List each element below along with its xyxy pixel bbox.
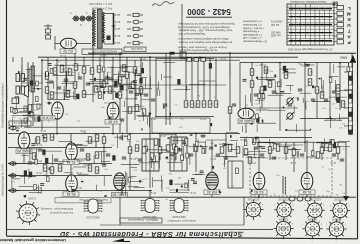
mains transformer windings (283, 176, 286, 195)
resistor R7 (90, 68, 94, 74)
capacitor C18 (80, 149, 84, 151)
potentiometer VR2 (286, 112, 294, 120)
capacitor C4 (78, 77, 82, 79)
label EF 89 (105, 119, 121, 124)
DIN connector arrow P1 (9, 126, 20, 130)
svg-text:EM34: EM34 (24, 211, 31, 215)
small dark box left of paragraph (180, 52, 186, 58)
svg-text:L: L (348, 6, 351, 11)
resistor R20 (118, 92, 122, 98)
svg-text:25 1k: 25 1k (75, 171, 82, 174)
DIN connector arrow P4 (9, 188, 20, 192)
DIN connector arrow P2 (9, 161, 20, 165)
capacitor C30 (340, 159, 344, 161)
resistor R4 (68, 69, 72, 75)
wire vertical x=252 (251, 62, 253, 106)
resistor R62 (166, 145, 170, 151)
resistor R2 (53, 68, 57, 74)
IF can box 3 (228, 161, 243, 188)
svg-text:0,5: 0,5 (264, 68, 268, 72)
wire vertical x=160 (159, 133, 161, 160)
resistor R67 (244, 149, 248, 155)
capacitors on bus wire (187, 58, 205, 61)
svg-text:470: 470 (58, 166, 63, 170)
tube socket bottom view EZ80 (326, 219, 346, 239)
winding zigzag right strip (102, 12, 104, 43)
wire horizontal bus y=85 (118, 84, 226, 86)
svg-text:10k: 10k (88, 166, 93, 170)
DIN connector arrow P3 (9, 173, 20, 177)
capacitor C17 (54, 159, 58, 161)
svg-text:5432 - 3000: 5432 - 3000 (187, 7, 231, 16)
wire vertical x=204 (203, 58, 205, 100)
svg-text:29/12 6Z19: 29/12 6Z19 (309, 199, 321, 201)
capacitor C9 (144, 94, 148, 96)
resistor R48 (88, 137, 92, 143)
svg-text:1M: 1M (213, 97, 216, 99)
wire vertical x=100 (99, 57, 101, 96)
svg-text:ab Ser.: ab Ser. (112, 13, 120, 17)
resistor R34 (315, 87, 319, 93)
large tube socket EM34 bottom-left (16, 201, 40, 225)
svg-text:ab Ser.: ab Ser. (112, 27, 120, 31)
svg-text:1M: 1M (245, 105, 248, 107)
svg-text:frei oben gesehen!: frei oben gesehen! (50, 211, 73, 215)
svg-text:10k: 10k (98, 93, 103, 97)
svg-text:25 1k: 25 1k (289, 161, 296, 164)
wire horizontal bus y=142.2 (252, 141, 346, 143)
svg-text:25 1k: 25 1k (189, 191, 196, 194)
resistor R50 (102, 137, 106, 143)
capacitor C2 (57, 87, 61, 89)
black arrow bottom centre (112, 239, 130, 243)
wire vertical x=338 (337, 142, 339, 160)
wire horizontal bus y=197.2 (112, 196, 356, 198)
capacitor C22 (170, 154, 174, 156)
wire vertical x=150 (149, 58, 151, 188)
wire vertical x=166 (165, 53, 167, 125)
tube V6 EL84 (66, 143, 78, 160)
wire vertical x=307 (306, 140, 308, 172)
svg-text:0,1: 0,1 (90, 69, 94, 73)
svg-text:25 1k: 25 1k (139, 57, 146, 60)
wire vertical x=226 (225, 133, 227, 160)
wire horizontal bus y=118.6 (300, 118, 333, 120)
svg-text:ECH81: ECH81 (310, 208, 319, 212)
svg-text:25 1k: 25 1k (103, 101, 110, 104)
wire vertical x=48 (47, 57, 49, 100)
resistor R36 (336, 85, 340, 91)
tube V4 EABC80 (238, 108, 254, 118)
wire vertical x=71 (70, 133, 72, 143)
table dark contact rows (289, 8, 332, 10)
label EABC 80 (238, 119, 254, 124)
resistor R29 (208, 101, 212, 107)
wire vertical x=120 (119, 53, 121, 133)
svg-text:470: 470 (208, 102, 213, 106)
capacitor C39 (189, 154, 193, 156)
tone switch box (12, 98, 19, 104)
resistor R35 (320, 92, 324, 98)
svg-text:EC 92: EC 92 (63, 49, 73, 53)
capacitor C12 (298, 89, 302, 91)
resistor R14 (102, 81, 106, 87)
svg-text:2M: 2M (251, 70, 255, 74)
right edge component ladder (348, 63, 350, 133)
wire vertical x=198 (197, 58, 199, 100)
wire vertical x=216 (215, 58, 217, 100)
resistor R8 (97, 66, 101, 72)
resistor R37 (336, 94, 340, 100)
capacitor C28 (300, 154, 304, 156)
wire vertical x=104 (103, 53, 105, 90)
wire vertical x=322 (321, 142, 323, 160)
svg-text:300: 300 (135, 146, 140, 150)
pushbutton switch table (Drucktastenaggregat) (287, 4, 334, 45)
svg-text:1M: 1M (294, 98, 297, 100)
svg-text:9: 9 (293, 205, 294, 207)
svg-text:0,1: 0,1 (36, 138, 40, 142)
wire vertical x=84 (83, 57, 85, 96)
boxed label 5432 C2 (9, 121, 31, 126)
title block separator line (7, 229, 274, 231)
resistor R6 (82, 67, 86, 73)
label V12 (112, 192, 128, 197)
underline of drawing number (186, 16, 232, 18)
tube socket bottom view EF41 (274, 200, 294, 220)
resistor R19 (139, 87, 143, 93)
resistor R87 (15, 97, 19, 103)
capacitor C20 (122, 157, 126, 159)
svg-text:1: 1 (273, 224, 274, 226)
svg-text:25 1k: 25 1k (219, 57, 226, 60)
svg-text:5: 5 (252, 220, 253, 222)
resistor R10 (66, 91, 70, 97)
legend row 4 (127, 34, 143, 38)
label EM 34 (204, 190, 220, 195)
tube V7 EL84 (66, 175, 78, 192)
resistor R64 (194, 145, 198, 151)
resistor R55 (95, 167, 99, 173)
socket pin labels EABC80 (273, 224, 293, 242)
wire vertical x=176 (175, 133, 177, 160)
wire vertical x=317 (316, 62, 318, 118)
resistor R75 (336, 147, 340, 153)
svg-text:Abgleich - Frequenzen: Abgleich - Frequenzen (127, 218, 158, 222)
wire vertical x=210 (209, 58, 211, 100)
trimmer labels (70, 12, 88, 27)
svg-text:EL84: EL84 (309, 227, 316, 231)
resistor R31 (228, 107, 232, 113)
svg-text:1: 1 (330, 205, 331, 207)
wire horizontal bus y=133.6 (8, 133, 240, 135)
svg-text:bis 1620: bis 1620 (270, 34, 280, 37)
socket pin labels EC92 (243, 205, 263, 223)
resistor R85 (142, 109, 146, 115)
tube socket bottom view EL84 (302, 219, 322, 239)
label EL 84 (299, 190, 315, 195)
wire vertical x=120 (119, 197, 121, 225)
svg-text:0,1: 0,1 (102, 138, 106, 142)
resistor R27 (196, 101, 200, 107)
svg-text:M: M (347, 12, 351, 17)
resistor R30 (214, 101, 218, 107)
svg-text:25 1k: 25 1k (59, 54, 66, 57)
resistor R68 (248, 157, 252, 163)
wire horizontal bus y=58.4 (156, 57, 214, 59)
capacitor C5 (86, 83, 90, 85)
wire vertical x=127 (126, 57, 128, 133)
svg-text:25 1k: 25 1k (159, 134, 166, 137)
label EZ 80 (251, 190, 267, 195)
resistor R80 (202, 147, 206, 153)
svg-text:Lautsprecher: Lautsprecher (5, 85, 9, 100)
capacitor C13 (311, 99, 315, 101)
tube V2 ECH81 (52, 102, 64, 119)
wire horizontal bus y=53.2 (88, 52, 356, 54)
left rotated tiny labels (5, 85, 9, 100)
resistor R63 (174, 147, 178, 153)
svg-text:Schaltbildanderungen vorbehalt: Schaltbildanderungen vorbehalten! (1, 83, 5, 128)
coil winding right of core (103, 14, 104, 42)
wire mesh upper-mid (157, 62, 230, 96)
tube V10 EL84 output (301, 172, 313, 189)
resistor R32 (308, 69, 312, 75)
svg-text:88: 88 (332, 0, 338, 5)
tube socket bottom view EABC80 (273, 219, 293, 239)
wire vertical x=212 (211, 140, 213, 172)
svg-text:62/6 6Z0: 62/6 6Z0 (332, 219, 342, 221)
capacitor C11 (272, 91, 276, 93)
wire vertical x=244 (243, 197, 245, 225)
svg-text:PU 2 = 5432/2: PU 2 = 5432/2 (92, 6, 112, 10)
resistor R81 (236, 147, 240, 153)
trimmer capacitor T3 (87, 16, 92, 21)
svg-text:1: 1 (304, 205, 305, 207)
svg-text:0,5: 0,5 (118, 93, 122, 97)
resistor R88 (28, 105, 32, 111)
wire vertical x=280 (279, 62, 281, 131)
winding zigzag left strip (93, 10, 95, 46)
tiny caption text below coil block (82, 49, 122, 54)
svg-text:470: 470 (284, 73, 289, 77)
resistor R26 (190, 101, 194, 107)
border frame right line (357, 0, 359, 239)
wire vertical x=96 (95, 133, 97, 147)
label EABC 80 (16, 149, 32, 154)
capacitor C1 (49, 81, 53, 83)
wire vertical x=57 (56, 60, 58, 100)
svg-text:1M: 1M (178, 178, 181, 180)
resistor R41 (284, 72, 288, 78)
resistor R77 (142, 147, 146, 153)
coupling box (107, 36, 111, 41)
wire vertical x=352 (351, 53, 353, 130)
boxed caption Abgleich-Frequenzen (120, 218, 162, 223)
tube V3 EF89 (107, 102, 119, 119)
wire vertical x=150 (149, 190, 151, 197)
svg-text:1M: 1M (332, 103, 335, 105)
svg-text:9: 9 (321, 224, 322, 226)
wire vertical x=192 (191, 58, 193, 100)
wire mesh upper-mid2 (122, 62, 152, 127)
resistor R25 (184, 101, 188, 107)
capacitor C35 (163, 104, 167, 106)
resistor R45 (36, 137, 40, 143)
resistor R46 (43, 135, 47, 141)
ladder side taps (344, 72, 349, 126)
svg-text:o = Steckerleiste: o = Steckerleiste (242, 23, 261, 26)
svg-text:25 1k: 25 1k (329, 161, 336, 164)
ferrite rod bar (113, 13, 115, 45)
svg-text:470: 470 (202, 102, 207, 106)
wire vertical x=24 (23, 148, 25, 163)
wire horizontal bus y=116.6 (155, 116, 214, 118)
resistor R84 (135, 105, 139, 111)
key lever boxes column (337, 6, 344, 10)
svg-text:= Druckt. - Kontakt: = Druckt. - Kontakt (243, 26, 264, 29)
resistor R49 (95, 135, 99, 141)
svg-text:ab Ser.: ab Ser. (112, 34, 120, 38)
svg-text:1M: 1M (223, 168, 226, 170)
wire vertical x=330 (329, 62, 331, 118)
resistor R17 (125, 72, 129, 78)
tiny label texture (12, 61, 348, 201)
resistor R12 (94, 86, 98, 92)
svg-text:5: 5 (312, 239, 313, 241)
svg-text:1M: 1M (43, 156, 46, 158)
svg-text:25 1k: 25 1k (99, 54, 106, 57)
svg-text:1M: 1M (34, 110, 37, 112)
capacitor C29 (332, 154, 336, 156)
tube socket bottom view EF89 (330, 200, 350, 220)
capacitor C40 (209, 147, 213, 149)
svg-text:der Abgleichfolge beim Abgleic: der Abgleichfolge beim Abgleich des Gera… (178, 40, 232, 44)
resistor R44 (260, 87, 264, 93)
capacitor C32 (108, 117, 112, 119)
loudspeaker lower (16, 85, 28, 97)
svg-text:9: 9 (345, 224, 346, 226)
wire horizontal bus y=190.6 (8, 190, 152, 192)
capacitor C15 (332, 91, 336, 93)
wire vertical x=246 (245, 118, 247, 133)
capacitor C14 (324, 99, 328, 101)
capacitor C6 (105, 77, 109, 79)
svg-text:Urheberrechtlich geschützt! Na: Urheberrechtlich geschützt! Nachdruck ve… (0, 238, 66, 243)
noval base B pin diagram (170, 199, 189, 213)
wire vertical x=262 (261, 62, 263, 108)
svg-text:u = UKW o = AM: u = UKW o = AM (243, 36, 262, 39)
svg-text:o = Lotosenleiste: o = Lotosenleiste (242, 20, 262, 23)
wire mesh mid-right (243, 137, 350, 159)
trimmer connecting wire (72, 18, 93, 20)
svg-text:10k: 10k (66, 92, 71, 96)
svg-text:1: 1 (274, 205, 275, 207)
ratio detector sub-box (152, 118, 210, 133)
svg-text:1M: 1M (187, 190, 190, 192)
svg-text:17. Drucktastenaggregat 5432-2: 17. Drucktastenaggregat 5432-2001 (287, 48, 332, 52)
component value labels (tiny) (33, 65, 345, 172)
svg-text:C: C (86, 12, 88, 15)
wire vertical x=212 (211, 190, 213, 197)
resistor R28 (202, 101, 206, 107)
svg-text:P: P (348, 40, 351, 45)
svg-text:1M: 1M (192, 107, 195, 109)
resistor R74 (328, 145, 332, 151)
table vertical lines (290, 4, 292, 45)
svg-text:1M: 1M (135, 158, 138, 160)
svg-text:25 1k: 25 1k (35, 143, 42, 146)
resistor R60 (135, 145, 139, 151)
svg-text:Werksunterlage Nr. 5432: Werksunterlage Nr. 5432 (1, 164, 5, 196)
wire vertical x=182 (181, 4, 183, 58)
potentiometer VR1 (286, 97, 294, 105)
left column lower boxes (24, 104, 40, 123)
wire vertical x=13 (12, 57, 14, 62)
svg-text:25 1k: 25 1k (179, 57, 186, 60)
svg-text:MHz: MHz (340, 56, 347, 60)
resistor R23 (122, 65, 126, 71)
capacitor C26 (260, 154, 264, 156)
capacitor C37 (288, 104, 292, 106)
resistor R13 (98, 92, 102, 98)
MHz pointer arrow (350, 55, 356, 62)
wire vertical x=294 (293, 142, 295, 172)
resistor R33 (308, 79, 312, 85)
wire vertical x=93 (92, 8, 94, 102)
svg-text:EABC 80: EABC 80 (17, 149, 31, 153)
core tap wires (104, 14, 114, 45)
svg-text:10 = Abstimmanzeige: 10 = Abstimmanzeige (242, 40, 267, 43)
wire vertical x=230 (229, 53, 231, 131)
resistor R15 (108, 87, 112, 93)
svg-text:470: 470 (95, 168, 100, 172)
wire vertical x=156 (155, 58, 157, 116)
resistor R79 (184, 139, 188, 145)
svg-text:1M: 1M (185, 184, 188, 186)
tube V12 (striped envelope) (114, 173, 126, 190)
wire vertical x=71 (70, 160, 72, 175)
trimmer capacitor T1 (74, 16, 79, 21)
winding bumps beside core (28, 68, 31, 91)
svg-text:9: 9 (349, 205, 350, 207)
resistor R58 (95, 152, 99, 158)
resistor R56 (32, 153, 36, 159)
svg-text:9: 9 (292, 224, 293, 226)
resistor R61 (158, 147, 162, 153)
resistor R54 (88, 165, 92, 171)
resistor R39 (264, 67, 268, 73)
legend row 1 (127, 13, 143, 16)
wire vertical x=340 (339, 62, 341, 110)
capacitor C25 (224, 157, 228, 159)
resistor R73 (320, 147, 324, 153)
socket column captions (248, 199, 347, 221)
resistor R38 (341, 101, 345, 107)
wire horizontal bus y=147.6 (8, 147, 112, 149)
IF can box 2 (170, 137, 187, 171)
wire vertical x=113 (112, 57, 114, 100)
svg-text:300: 300 (97, 67, 102, 71)
svg-text:1M: 1M (247, 153, 250, 155)
border frame bottom line (7, 236, 358, 239)
resistor R22 (50, 92, 54, 98)
capacitor C16 (38, 149, 42, 151)
wire horizontal bus y=225 (100, 224, 244, 226)
dashed enclosure box (250, 158, 332, 196)
resistor R69 (268, 147, 272, 153)
wire vertical x=186 (185, 58, 187, 100)
